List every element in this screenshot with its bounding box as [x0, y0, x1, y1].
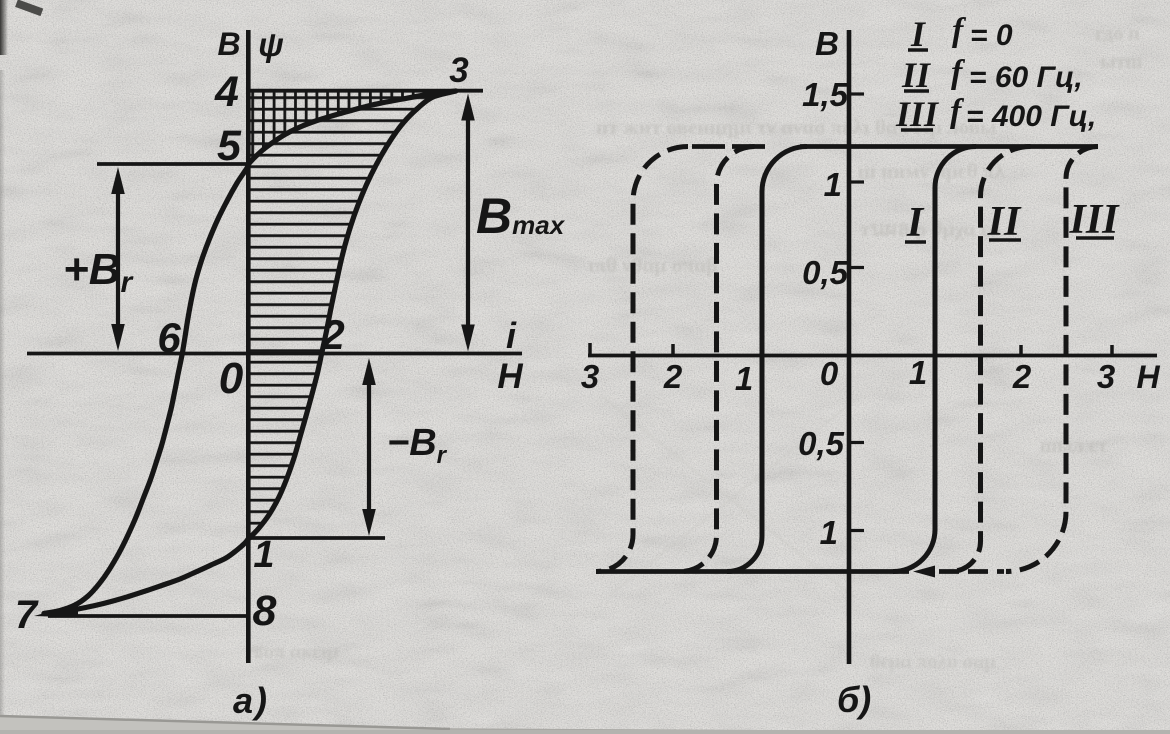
svg-text:θεμα πολυ σαμ: θεμα πολυ σαμ [870, 651, 996, 673]
svg-text:III: III [1068, 197, 1120, 243]
svg-text:7: 7 [15, 593, 39, 637]
svg-text:H: H [497, 357, 523, 396]
svg-text:i: i [506, 315, 517, 356]
svg-text:III: III [895, 94, 940, 134]
svg-text:3: 3 [1097, 358, 1115, 395]
svg-text:0: 0 [820, 355, 839, 392]
svg-text:б): б) [837, 679, 871, 720]
svg-text:ชυπ ακειμ: ชυπ ακειμ [250, 641, 339, 663]
svg-text:0,5: 0,5 [802, 254, 849, 291]
svg-text:I: I [906, 200, 925, 246]
svg-text:2: 2 [1012, 358, 1032, 395]
svg-text:1: 1 [735, 360, 753, 397]
svg-text:2: 2 [320, 311, 344, 358]
svg-text:ψ: ψ [258, 26, 284, 63]
svg-text:= 60 Гц,: = 60 Гц, [969, 61, 1083, 94]
svg-text:1: 1 [824, 166, 842, 203]
svg-text:= 400 Гц,: = 400 Гц, [966, 100, 1096, 133]
svg-text:8: 8 [253, 587, 277, 635]
svg-text:шыл ст: шыл ст [1040, 435, 1108, 457]
svg-text:1: 1 [820, 514, 838, 551]
svg-text:0: 0 [219, 354, 244, 403]
svg-text:ιπθ νθαμ σπαβ: ιπθ νθαμ σπαβ [588, 253, 717, 277]
svg-text:1: 1 [253, 534, 274, 576]
svg-text:I: I [910, 14, 927, 54]
svg-text:3: 3 [581, 358, 599, 395]
svg-text:5: 5 [217, 122, 242, 170]
svg-text:гдо п: гдо п [1095, 23, 1140, 45]
svg-text:1,5: 1,5 [802, 76, 849, 113]
svg-text:а): а) [233, 680, 269, 721]
svg-text:6: 6 [157, 314, 181, 361]
svg-text:= 0: = 0 [970, 19, 1013, 52]
svg-text:B: B [815, 25, 839, 62]
svg-text:0,5: 0,5 [798, 425, 845, 462]
svg-text:H: H [1136, 359, 1160, 395]
svg-text:3: 3 [449, 51, 469, 90]
svg-text:1: 1 [909, 354, 927, 391]
svg-text:II: II [987, 199, 1022, 245]
svg-text:B: B [217, 26, 240, 62]
svg-text:II: II [901, 55, 932, 95]
svg-text:2: 2 [663, 358, 683, 395]
svg-text:ытш: ытш [1100, 51, 1142, 73]
svg-text:4: 4 [214, 68, 239, 116]
